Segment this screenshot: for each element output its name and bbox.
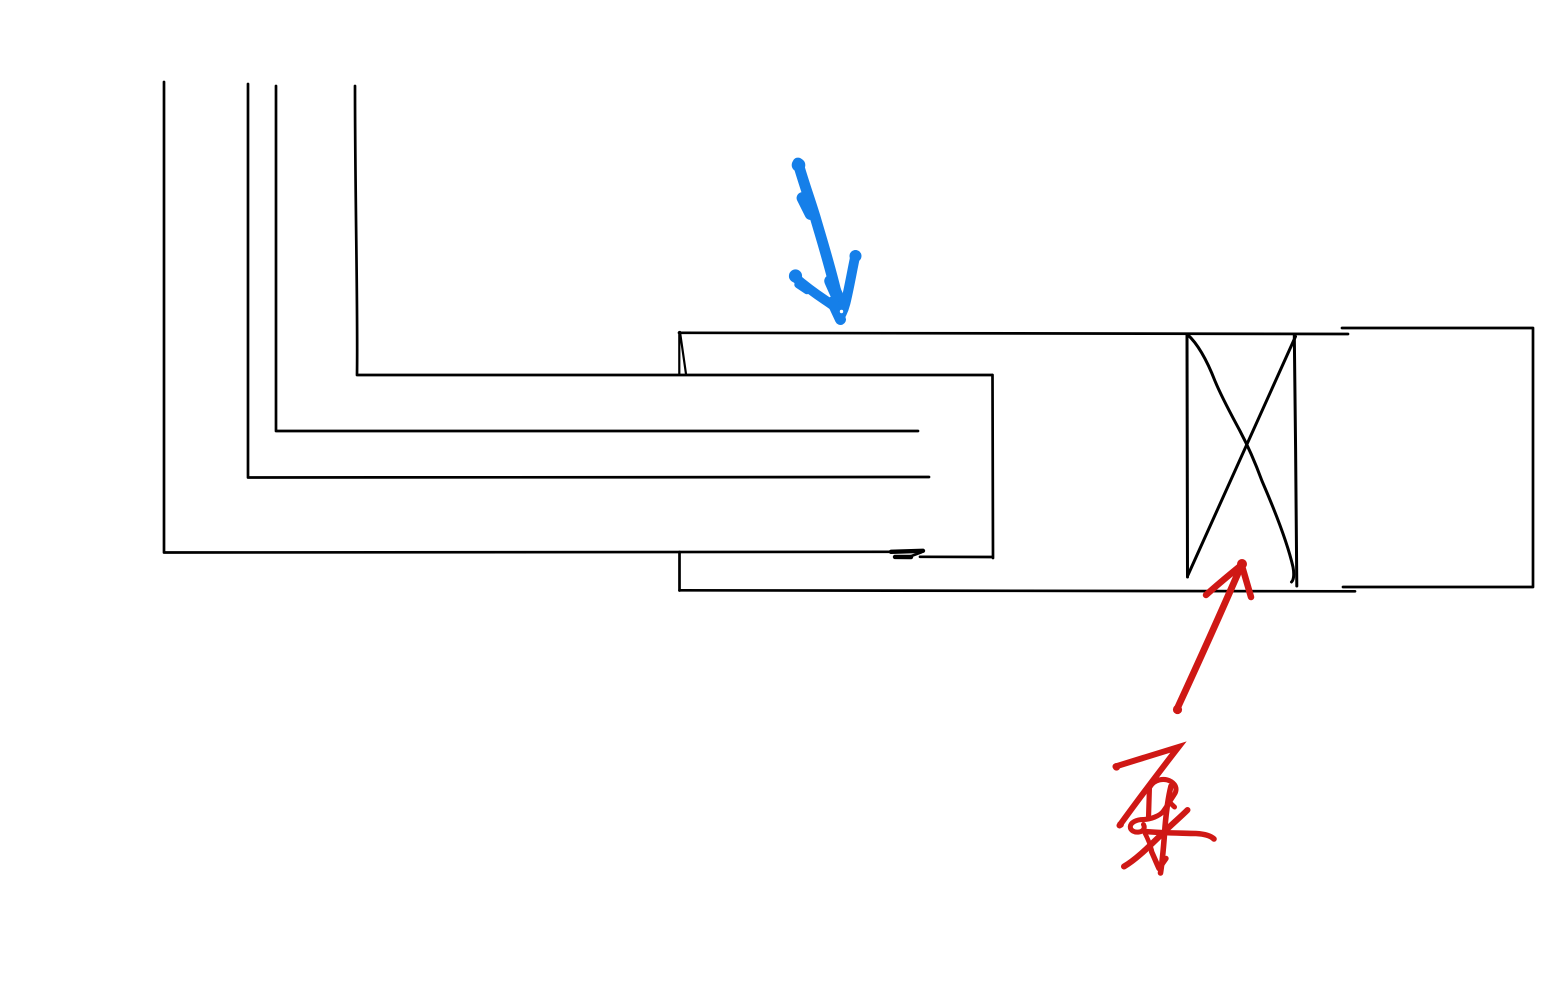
blue arrow shaft top cap blob [792,158,806,172]
label 泵 stroke: center vertical [1161,786,1172,873]
blue arrow shaft mid bulge [803,198,811,214]
blue arrow tip white pinhole [840,310,843,313]
label 泵 stroke: curl exit connector [1144,832,1152,851]
label 泵 stroke: long left-falling sweep [1124,810,1188,867]
bottom line right portion after smudge [920,555,993,558]
label 泵 stroke: long bottom horizontal with end tail [1145,832,1214,840]
ink smudge scribble on bottom line [891,551,923,552]
lower pipe bottom line [680,590,1356,591]
pump X diagonal 1 (top-left to bottom-right, s-curved) [1188,335,1294,583]
pump box left wall [1186,334,1190,577]
label 泵 stroke: left-falling end blob [1117,821,1124,828]
inner tubing line 4 (fourth vertical, turns right at top of inner box) [355,86,992,375]
label 泵 stroke: D-arc loop [1144,779,1177,819]
right reservoir rectangle [1342,328,1533,587]
blue arrow shaft [798,163,839,305]
red arrow head right wing [1242,566,1251,597]
blue arrow tip lower mass [833,302,841,320]
blue arrow head left wing [794,277,839,311]
blue arrow shaft-head junction overlay [831,281,839,299]
blue arrow head left wing start blob [789,269,802,282]
label 泵 stroke: small nub tick [1170,803,1175,808]
blue arrow head right wing [842,255,856,314]
red arrow tip dot [1237,559,1247,569]
label 泵 stroke: lower-left curl loop [1130,820,1144,833]
upper pipe top line [679,333,1348,334]
blue arrow head right wing top blob [850,250,862,262]
label 泵 stroke: bottom check mark [1152,852,1167,869]
red arrow shaft bottom cap [1173,705,1182,714]
red arrow head left wing [1206,567,1239,595]
label 泵 stroke: top horizontal left cap blob [1113,763,1121,771]
blue arrow head left wing under-dash [798,285,807,291]
pump box right wall [1294,335,1297,586]
label 泵 (pump) stroke: top horizontal + left-falling (7-shape) [1116,747,1179,826]
upper pipe connector tick [679,332,686,374]
label 泵 stroke: small left vertical of loop [1149,786,1150,819]
lower pipe left connector [678,552,681,591]
pump X diagonal 2 (top-right to bottom-left) [1188,337,1296,576]
red arrow shaft [1177,568,1241,710]
casing line 2 (second vertical, turns right) [248,84,929,478]
outer casing left wall and bottom (pipe line 1) [164,82,893,553]
inner box right wall [991,375,994,558]
casing line 3 (third vertical, turns right) [276,86,918,431]
